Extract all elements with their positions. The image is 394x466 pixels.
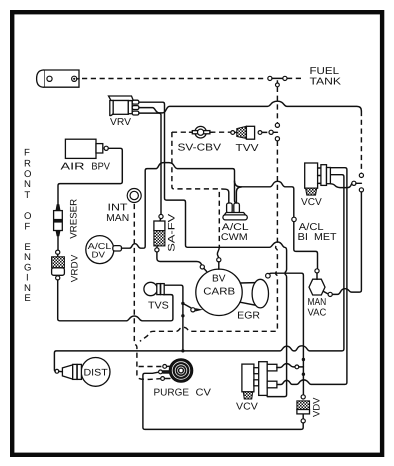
wire upper VCV side tap to manifold riser: [331, 181, 362, 187]
svg-text:SV-CBV: SV-CBV: [178, 142, 222, 153]
svg-text:VRESER: VRESER: [69, 199, 80, 239]
svg-text:VAC: VAC: [308, 307, 327, 318]
label INT MAN: [106, 203, 129, 224]
distributor DIST: [55, 358, 110, 387]
wire dashed fuel tank line: [82, 76, 303, 80]
wire lower VCV upper port to VDV riser: [277, 364, 304, 369]
svg-text:BI: BI: [298, 232, 309, 243]
valve MAN VAC: [309, 269, 332, 297]
svg-text:SA-FV: SA-FV: [166, 213, 177, 252]
label A/CL BI MET: [298, 222, 337, 243]
svg-text:TANK: TANK: [310, 77, 342, 88]
svg-text:E: E: [24, 293, 30, 304]
svg-text:CV: CV: [196, 388, 212, 399]
wire SA-FV to carb upper-left port: [157, 252, 207, 271]
svg-text:MET: MET: [314, 232, 337, 243]
wire AIR BPV to VRESER: [58, 148, 122, 204]
valve PURGE CV: [159, 359, 193, 383]
wire VRDV to TVS bottom port: [58, 280, 173, 321]
svg-text:CWM: CWM: [221, 232, 248, 243]
valve SA-FV: [154, 214, 165, 252]
canister AIR BPV: [65, 139, 108, 158]
svg-text:PURGE: PURGE: [154, 388, 190, 399]
svg-text:CARB: CARB: [203, 286, 235, 297]
svg-text:T: T: [24, 190, 30, 201]
svg-text:N: N: [24, 252, 31, 263]
wire dashed SV-CBV / TVV line: [172, 130, 278, 134]
svg-text:VRV: VRV: [110, 117, 131, 128]
valve A/CL DV: [86, 236, 122, 264]
label A/CL DV: [88, 241, 112, 260]
port INT MAN: [127, 189, 141, 203]
valve EGR: [240, 273, 270, 308]
svg-text:N: N: [24, 283, 31, 294]
svg-text:VCV: VCV: [301, 197, 322, 208]
wire upper VCV top port to lower VCV lower port: [277, 168, 347, 385]
svg-text:TVV: TVV: [236, 143, 259, 154]
label FUEL TANK: [310, 66, 342, 88]
label PURGE CV: [154, 388, 212, 399]
svg-text:MAN: MAN: [106, 213, 129, 224]
label A/CL CWM: [221, 222, 250, 243]
valve TVV: [231, 126, 262, 139]
svg-text:EGR: EGR: [237, 310, 260, 321]
label BV CARB: [203, 274, 235, 298]
svg-text:DV: DV: [92, 250, 106, 260]
wire VRV top port to carburetor top port junction: [139, 102, 287, 396]
svg-text:F: F: [24, 221, 30, 232]
valve SV-CBV symbol: [190, 126, 213, 138]
svg-text:TVS: TVS: [148, 300, 169, 311]
label AIR BPV: [61, 161, 111, 172]
wire DIST to upper VCV lower port: [54, 175, 344, 372]
wire dashed INT MAN to PURGE CV: [134, 204, 162, 380]
delay valve VDV: [297, 401, 310, 414]
label MAN VAC: [308, 297, 327, 318]
svg-text:FUEL: FUEL: [310, 66, 340, 77]
label FRONT OF ENGINE (vertical letters): [24, 148, 31, 305]
svg-text:R: R: [24, 158, 31, 169]
reservoir VRESER: [54, 205, 63, 255]
wire VRV bottom port to SA-FV: [139, 113, 161, 214]
svg-text:AIR: AIR: [61, 161, 85, 172]
switch TVS: [144, 282, 164, 295]
svg-text:VDV: VDV: [311, 397, 322, 417]
svg-text:I: I: [26, 272, 29, 283]
svg-text:BPV: BPV: [91, 161, 110, 172]
valve lower VCV: [242, 362, 277, 399]
svg-text:VRDV: VRDV: [70, 254, 81, 282]
sensor A/CL CWM: [222, 187, 247, 220]
svg-text:INT: INT: [108, 203, 128, 214]
svg-text:BV: BV: [212, 274, 226, 285]
svg-text:F: F: [24, 148, 30, 159]
valve VRDV: [52, 254, 65, 280]
wire dashed carb bowl vent riser (fuel tank to carb): [140, 80, 280, 341]
valve upper VCV: [305, 163, 331, 195]
svg-text:O: O: [24, 211, 31, 222]
wire A/CL DV to A/CL CWM and A/CL BI MET: [122, 163, 318, 269]
svg-text:DIST: DIST: [84, 368, 108, 379]
sensor capsule (fuel tank vapor valve): [37, 70, 79, 87]
svg-text:VCV: VCV: [236, 402, 258, 413]
wire TVS to carburetor and distributor line: [164, 285, 190, 351]
wire VRV middle port to right-side manifold riser: [139, 101, 364, 294]
wire dashed SV-CBV box left edge to A/CL CWM: [172, 132, 219, 247]
wire EGR to VDV and PURGE CV loop: [143, 273, 305, 429]
carburetor BV CARB: [191, 258, 242, 316]
svg-text:N: N: [24, 179, 31, 190]
valve VRV: [109, 96, 139, 116]
